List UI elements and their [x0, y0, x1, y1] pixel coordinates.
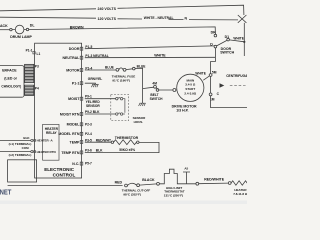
- terminal high limit left: [157, 182, 160, 185]
- svg-text:THERMISTOR: THERMISTOR: [115, 136, 139, 140]
- svg-text:HEATER -A: HEATER -A: [37, 139, 54, 143]
- wire L1 supply left segment: [0, 17, 96, 18]
- svg-text:RED/WHT: RED/WHT: [96, 138, 111, 142]
- door switch lever D to D1: [217, 40, 227, 46]
- svg-text:98°C (352°F): 98°C (352°F): [123, 192, 141, 196]
- svg-text:P3: P3: [35, 65, 39, 69]
- svg-text:P3-6: P3-6: [85, 149, 92, 153]
- ground GRN/YEL: [85, 83, 96, 84]
- belt switch lever: [156, 89, 159, 92]
- wire brown lamp to door switch: [29, 27, 216, 34]
- svg-text:MOIST RTN: MOIST RTN: [60, 112, 80, 116]
- svg-text:SWITCH: SWITCH: [220, 51, 234, 55]
- svg-text:D1: D1: [225, 35, 230, 39]
- wire cutoff to high limit: [140, 184, 157, 185]
- svg-text:HEATER RTN: HEATER RTN: [37, 150, 56, 154]
- door switch terminal D1: [227, 38, 230, 41]
- svg-text:WHITE: WHITE: [195, 72, 206, 76]
- pin MODEL P2-3: [67, 122, 92, 126]
- thermal cut-off TCO: [125, 183, 140, 187]
- terminal drum lamp left: [10, 28, 12, 30]
- drive motor M1: [177, 74, 204, 101]
- pin MODEL RTN P2-4: [58, 132, 92, 136]
- svg-text:P5-7: P5-7: [85, 162, 92, 166]
- wire fuse to node: [126, 68, 132, 71]
- wire thermistor return loop: [85, 142, 159, 152]
- wire L1 supply right segment: [118, 18, 143, 20]
- pin HEATER RTN: [31, 151, 36, 153]
- svg-text:ERFACE: ERFACE: [2, 69, 17, 73]
- terminal thermistor left: [111, 141, 113, 143]
- svg-text:P3-5: P3-5: [85, 138, 92, 142]
- wire lamp to DL terminal: [12, 29, 26, 31]
- svg-text:DR: DR: [211, 31, 217, 35]
- electronic control board box: [35, 43, 82, 178]
- sensor contact upper: [116, 98, 125, 113]
- svg-text:2.4-3.9Ω: 2.4-3.9Ω: [184, 91, 196, 95]
- svg-text:P1-3 NEUTRAL: P1-3 NEUTRAL: [85, 54, 108, 58]
- terminal 5M: [209, 74, 212, 77]
- dashed actuator line: [230, 84, 247, 86]
- wire right edge vertical (white): [243, 23, 245, 56]
- svg-text:BLUE: BLUE: [137, 64, 147, 68]
- wire neutral P1-3 to motor switch: [85, 56, 216, 58]
- svg-text:240 VOLTS: 240 VOLTS: [98, 7, 117, 11]
- svg-text:BLUE: BLUE: [105, 66, 115, 70]
- svg-text:GRN/YEL: GRN/YEL: [88, 77, 102, 81]
- wire MOIST RTN to sensor: [85, 113, 116, 115]
- svg-text:P1-5: P1-5: [85, 45, 92, 49]
- wire motor to 5M: [203, 76, 209, 80]
- svg-text:DL: DL: [30, 24, 36, 28]
- pin DOOR P1-5: [69, 45, 93, 51]
- svg-text:(L2) TERMINAL): (L2) TERMINAL): [9, 153, 32, 157]
- svg-text:ELECTRONIC: ELECTRONIC: [44, 167, 75, 172]
- power terminal block box: [8, 160, 37, 182]
- svg-text:P9-1: P9-1: [85, 95, 92, 99]
- svg-text:A5: A5: [184, 167, 188, 171]
- svg-text:NET: NET: [0, 189, 12, 197]
- pin TEMP RTN P3-6: [61, 149, 103, 155]
- actuator arrow: [220, 83, 225, 87]
- pin MOIST P9-1: [68, 95, 92, 101]
- svg-text:NEUTRAL: NEUTRAL: [62, 56, 80, 60]
- pin HEATER-A: [31, 139, 36, 141]
- svg-text:TEMP RTN: TEMP RTN: [61, 151, 80, 155]
- motor terminal left: [173, 89, 176, 92]
- user interface board box: [0, 66, 24, 98]
- wire branch to belt switch: [143, 87, 154, 88]
- svg-text:BLK: BLK: [23, 136, 30, 140]
- terminal DL: [26, 28, 28, 30]
- svg-text:4M: 4M: [152, 82, 157, 86]
- svg-text:5M: 5M: [212, 70, 217, 74]
- svg-text:MOTOR: MOTOR: [66, 68, 80, 72]
- probe terminal: [183, 172, 190, 184]
- wire L2 supply top left segment: [0, 9, 96, 11]
- centrifugal switch bar: [210, 76, 212, 93]
- svg-text:91°C (196°F): 91°C (196°F): [112, 78, 130, 82]
- svg-text:50KΩ ±5%: 50KΩ ±5%: [119, 148, 135, 152]
- svg-text:RED/WHITE: RED/WHITE: [204, 178, 225, 182]
- svg-text:P1-1: P1-1: [26, 48, 33, 52]
- heater element zigzag: [231, 181, 250, 185]
- drum lamp DL1: [15, 25, 24, 34]
- svg-text:COM: COM: [22, 146, 30, 150]
- svg-text:RELAY: RELAY: [46, 131, 58, 135]
- svg-text:BLACK: BLACK: [142, 178, 155, 182]
- wire L1 terminal to heater relay: [0, 139, 31, 141]
- svg-text:P2-4: P2-4: [85, 132, 92, 136]
- svg-text:DOOR: DOOR: [69, 47, 80, 51]
- wire blue down to sensor housing ground: [135, 68, 143, 103]
- heater relay box K1: [43, 124, 59, 160]
- pin MOIST RTN P9-2: [60, 110, 100, 116]
- wire door switch common down to motor switch: [211, 48, 216, 74]
- wire MOIST to sensor: [85, 98, 116, 100]
- wire L2 supply top right segment: [118, 5, 244, 15]
- junction dot node W: [243, 41, 245, 43]
- wire P1-5 to door switch D: [85, 46, 215, 49]
- svg-text:WHITE: WHITE: [233, 36, 244, 40]
- wire D1 to node W: [229, 40, 243, 42]
- svg-text:7.8-11.8 Ω: 7.8-11.8 Ω: [233, 192, 247, 196]
- svg-text:MOIST: MOIST: [68, 97, 80, 101]
- svg-text:BLK: BLK: [96, 149, 103, 153]
- pin NEUTRAL P1-3: [62, 54, 108, 60]
- terminal high limit right: [196, 182, 199, 185]
- thermistor RT1 zigzag: [114, 140, 137, 145]
- svg-text:CONTROL: CONTROL: [53, 173, 76, 178]
- svg-text:START: START: [185, 87, 195, 91]
- wire neutral right segment: [169, 18, 239, 21]
- pin MOTOR P1-4: [66, 66, 92, 72]
- svg-text:P1-1: P1-1: [72, 82, 80, 86]
- wire black to drum lamp: [0, 29, 10, 31]
- moisture sensor dashed housing: [111, 94, 129, 120]
- svg-text:N.C.: N.C.: [72, 162, 79, 166]
- sensor contact lower: [116, 113, 125, 115]
- svg-text:HOUS.: HOUS.: [134, 120, 144, 124]
- svg-text:SENSOR: SENSOR: [86, 104, 100, 108]
- ribbon connector P3 hatch: [25, 64, 34, 82]
- svg-text:L1: L1: [37, 52, 41, 56]
- terminal heater left: [228, 182, 231, 185]
- svg-text:BROWN: BROWN: [70, 25, 84, 29]
- svg-text:WHITE: WHITE: [154, 54, 166, 58]
- thermal fuse TF1: [116, 68, 126, 71]
- svg-text:120 VOLTS: 120 VOLTS: [98, 17, 117, 21]
- terminal thermistor right: [137, 141, 139, 143]
- svg-text:(LED or: (LED or: [4, 77, 17, 81]
- wire to heater element: [199, 182, 229, 185]
- ribbon connector P4 hatch: [25, 85, 34, 95]
- door switch terminal D: [214, 45, 217, 48]
- svg-text:131°C (250°F): 131°C (250°F): [164, 193, 183, 197]
- svg-text:CHNOLOGY): CHNOLOGY): [1, 85, 21, 89]
- svg-text:N: N: [185, 16, 188, 20]
- svg-text:DRUM LAMP: DRUM LAMP: [10, 35, 32, 39]
- svg-text:3.4-5 Ω: 3.4-5 Ω: [185, 83, 196, 87]
- wire heater feed bottom: [8, 185, 123, 187]
- ground sensor housing: [139, 103, 146, 106]
- svg-text:SWITCH: SWITCH: [150, 97, 163, 101]
- pin N.C. P5-7: [72, 162, 92, 166]
- svg-text:1/3 H.P.: 1/3 H.P.: [176, 108, 188, 112]
- svg-text:ACK: ACK: [0, 24, 8, 28]
- junction crossover X: [238, 15, 247, 23]
- high limit thermostat body: [159, 169, 195, 184]
- svg-text:P4: P4: [35, 86, 39, 90]
- pin P1-1 ground: [72, 82, 83, 86]
- svg-text:TEMP: TEMP: [70, 140, 80, 144]
- svg-text:MODEL: MODEL: [67, 123, 81, 127]
- pin L1 bracket: [33, 52, 35, 54]
- thermistor circuit: [85, 141, 111, 143]
- terminal 1M: [209, 93, 212, 96]
- svg-text:P2-3: P2-3: [85, 122, 92, 126]
- wire L2 terminal to heater relay: [0, 151, 31, 153]
- belt switch terminal 4M: [154, 85, 157, 88]
- pin TEMP P3-5: [70, 138, 111, 144]
- terminal blue: [133, 67, 136, 70]
- svg-text:MODEL RTN: MODEL RTN: [58, 132, 79, 136]
- svg-text:RED: RED: [115, 181, 123, 185]
- wire motor P1-4 to thermal fuse: [85, 69, 116, 71]
- svg-text:CENTRIFUGAL: CENTRIFUGAL: [226, 74, 247, 78]
- wire 1M down and right to L2: [211, 96, 247, 108]
- door switch terminal DR: [214, 34, 217, 37]
